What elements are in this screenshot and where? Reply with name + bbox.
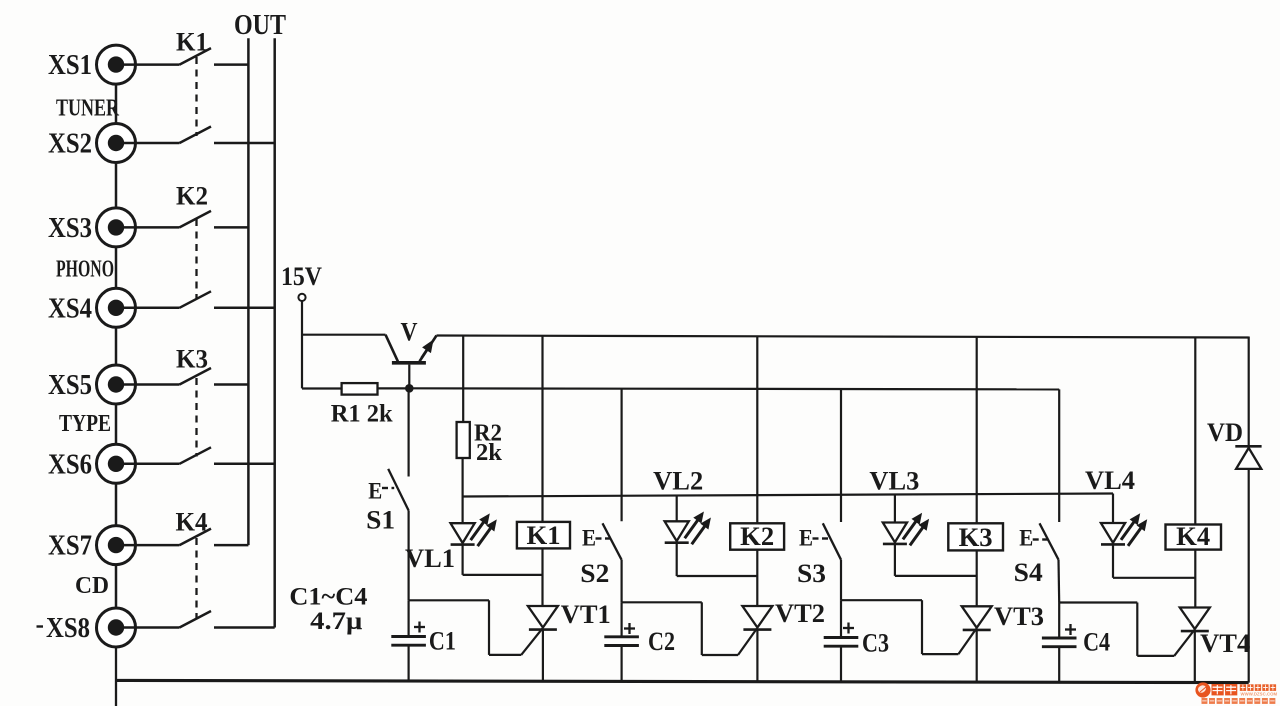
wire VL1 to relay column [463,574,543,576]
wire base line to S3 [840,389,842,522]
wire LED supply rail [463,494,1113,497]
thyristor VT1 [521,606,558,681]
label TUNER [56,96,119,122]
plus sign C3 [843,623,854,634]
svg-text:E: E [1019,526,1033,551]
wire VL2 to relay column [677,575,758,577]
svg-text:K2: K2 [740,522,774,551]
svg-text:K4: K4 [176,508,208,537]
wire XS5 switch contact to OUT bus [214,383,248,386]
svg-text:XS7: XS7 [48,531,92,562]
wire XS2 to switch [119,142,180,145]
OUT bus left wire [247,38,250,545]
svg-text:15V: 15V [281,262,322,291]
dashed gang link K2 [195,219,197,300]
svg-text:OUT: OUT [234,9,286,41]
wire S1 column to C1 [408,600,410,636]
label XS4 [48,293,92,324]
switch lever row XS1 [180,48,212,65]
svg-text:CD: CD [75,573,109,599]
wire gate jog to VT1 [489,654,521,656]
wire R2 to LED rail [462,458,464,497]
wire gate jog horizontal ch3 [841,599,922,601]
label TYPE [59,411,111,437]
label XS8 [46,613,90,644]
svg-text:XS5: XS5 [48,370,92,401]
wire XS1 switch contact to OUT bus [214,63,248,66]
svg-text:C1~C4: C1~C4 [289,584,368,611]
wire gate jog vertical ch4 [1136,603,1138,656]
svg-text:XS2: XS2 [48,129,92,160]
label E actuator S1 [368,479,394,504]
wire jack link [115,247,118,288]
switch lever row XS7 [180,529,212,546]
label VT3 [994,602,1044,631]
wire VD to ground rail [1248,469,1250,683]
label VL3 [869,467,919,496]
svg-text:VD: VD [1207,418,1243,447]
wire XS6 switch contact to OUT bus [214,463,275,466]
svg-text:C4: C4 [1083,628,1110,657]
wire XS8 to switch [119,626,180,629]
svg-text:R1 2k: R1 2k [331,401,393,428]
svg-text:K3: K3 [959,523,993,552]
svg-text:XS4: XS4 [48,293,92,324]
svg-text:K1: K1 [176,28,208,57]
connector XS8 (RCA jack) [97,608,136,647]
svg-text:S1: S1 [366,505,395,534]
wire gate jog vertical ch2 [701,602,703,655]
wire jack link [115,404,118,444]
wire XS4 to switch [119,307,180,310]
wire gate jog horizontal ch1 [409,599,489,601]
label S1 [366,505,395,534]
wire ground stub below XS8 [115,647,117,706]
label XS3 [48,213,92,244]
wire XS2 switch contact to OUT bus [214,142,275,145]
wire S2 to gate jog [620,560,622,603]
label CD [75,573,109,599]
label VL2 [653,467,703,496]
wire S2 column to C2 [620,602,622,637]
wire LED rail to VL4 [1112,494,1114,524]
wire gate jog to VT2 [702,654,738,656]
wire top rail to relay K1 [541,336,543,522]
wire jack link [115,84,118,123]
svg-text:S2: S2 [580,559,609,588]
label V [401,318,418,347]
wire S3 column to C3 [840,600,842,637]
wire XS3 switch contact to OUT bus [214,226,248,229]
svg-text:K4: K4 [1176,522,1210,551]
wire top rail to relay K4 [1194,337,1196,524]
wire gate jog horizontal ch4 [1059,601,1137,603]
wire top supply rail [437,336,1249,338]
label VL1 [405,544,455,573]
label VT1 [561,600,611,629]
svg-text:XS1: XS1 [48,50,92,81]
label E actuator S3 [799,526,828,551]
label VD [1207,418,1243,447]
switch S3 lever [823,523,841,559]
wire top rail corner to VD [1248,337,1250,447]
connector XS5 (RCA jack) [97,365,136,404]
svg-text:E: E [368,479,382,504]
LED VL4 [1101,523,1125,578]
wire C3 to ground rail [840,646,842,682]
svg-text:E: E [799,526,813,551]
LED VL1 [451,523,475,575]
connector XS7 (RCA jack) [97,526,136,565]
switch S2 lever [603,523,622,560]
wire XS7 switch contact to OUT bus [214,544,248,547]
wire top rail to R2 [462,336,464,422]
LED VL2 [665,521,689,576]
LED VL3 light arrows [903,514,929,546]
label XS6 [48,449,92,480]
svg-text:VL4: VL4 [1085,466,1135,495]
svg-text:C1: C1 [429,627,456,656]
wire jack link [115,565,118,608]
capacitor C4 [1042,638,1077,647]
wire top rail to relay K3 [976,337,978,524]
svg-text:VL1: VL1 [405,544,455,573]
relay coil K1 [517,522,570,549]
terminal 15V [298,294,305,301]
switch lever row XS6 [180,447,212,464]
wire VL3 to relay column [895,575,977,577]
svg-text:K2: K2 [176,182,208,211]
connector XS6 (RCA jack) [97,444,136,483]
wire jack link [115,483,118,525]
wire ground rail [116,680,1249,682]
svg-text:C3: C3 [862,629,889,658]
label VL4 [1085,466,1135,495]
OUT bus right wire [273,38,276,627]
svg-text:XS8: XS8 [46,613,90,644]
label 4.7u [310,608,362,635]
LED VL3 [883,523,907,576]
plus sign C1 [414,622,425,633]
svg-text:4.7μ: 4.7μ [310,608,362,635]
dash before XS8 [37,625,44,627]
capacitor C2 [604,637,639,646]
label S2 [580,559,609,588]
label VT4 [1200,629,1250,658]
label PHONO [56,257,114,283]
svg-text:VL2: VL2 [653,467,703,496]
svg-text:VT3: VT3 [994,602,1044,631]
label K3 (contact group) [176,345,208,374]
label K4 (coil) [1176,522,1210,551]
wire S4 column to C4 [1058,603,1060,639]
thyristor VT3 [958,606,991,682]
wire base line to S2 [620,389,622,522]
wire LED rail to VL2 [676,496,678,522]
label R2 [474,421,502,447]
label R2 value 2k [476,440,503,466]
label C4 [1083,628,1110,657]
wire LED rail to VL1 [462,497,464,524]
label K2 (coil) [740,522,774,551]
switch S4 lever [1040,523,1059,559]
svg-text:VL3: VL3 [869,467,919,496]
wire XS5 to switch [119,383,180,386]
wire gate jog vertical ch1 [488,600,490,655]
wire C2 to ground rail [620,646,622,682]
watermark dzsc logo [1195,682,1277,704]
label 15V [281,262,322,291]
svg-text:TYPE: TYPE [59,411,111,437]
plus sign C2 [624,623,635,634]
switch lever row XS2 [180,127,212,144]
svg-text:XS3: XS3 [48,213,92,244]
wire gate jog to VT4 [1137,655,1174,657]
wire relay K3 to VT3 [976,550,978,606]
label XS7 [48,531,92,562]
transistor V [386,335,437,389]
capacitor C3 [824,638,859,647]
label S4 [1014,558,1043,587]
wire XS7 to switch [119,544,180,547]
wire VL4 to relay column [1113,577,1195,579]
thyristor VT4 [1174,608,1210,683]
svg-text:TUNER: TUNER [56,96,119,122]
wire C1 to ground rail [408,645,410,681]
wire C4 to ground rail [1058,647,1060,683]
switch lever row XS5 [180,368,212,385]
svg-text:K1: K1 [527,521,561,550]
label R1 2k [331,401,393,428]
svg-text:K3: K3 [176,345,208,374]
label E actuator S4 [1019,526,1048,551]
svg-text:S3: S3 [797,559,826,588]
wire 15V to R1 [302,387,342,389]
dashed gang link K3 [195,378,197,457]
svg-text:VT2: VT2 [775,599,825,628]
wire relay K4 to VT4 [1194,550,1196,608]
wire base line to S4 [1058,389,1060,522]
wire relay K2 to VT2 [756,550,758,606]
wire gate jog horizontal ch2 [622,601,702,603]
label C1~C4 [289,584,368,611]
label XS5 [48,370,92,401]
dashed gang link K1 [195,57,197,136]
label C1 [429,627,456,656]
switch lever row XS8 [180,611,212,628]
switch lever row XS3 [180,211,212,228]
label XS1 [48,50,92,81]
connector XS1 (RCA jack) [97,45,136,84]
resistor R2 [457,422,470,458]
wire jack link [115,163,118,208]
label OUT [234,9,286,41]
wire gate jog to VT3 [922,653,958,655]
wire 15V down [301,301,303,388]
label S3 [797,559,826,588]
label C2 [648,627,675,656]
capacitor C1 [391,637,426,646]
label K1 (contact group) [176,28,208,57]
connector XS4 (RCA jack) [97,288,136,327]
diode VD [1235,446,1261,469]
svg-text:2k: 2k [476,440,503,466]
svg-text:V: V [401,318,418,347]
label K3 (coil) [959,523,993,552]
svg-text:PHONO: PHONO [56,257,114,283]
switch lever row XS4 [180,291,212,308]
wire top rail to relay K2 [756,336,758,523]
switch S1 lever [388,469,408,511]
wire S1 to gate jog [408,511,410,601]
plus sign C4 [1065,624,1076,635]
wire S4 to gate jog [1057,560,1060,603]
wire jack link [115,327,118,365]
wire base node to S1 [408,388,410,476]
connector XS2 (RCA jack) [97,124,136,163]
wire LED rail to VL3 [894,495,896,523]
relay coil K3 [948,523,1003,550]
wire S3 to gate jog [840,560,842,601]
junction dot base node [405,384,414,393]
relay coil K2 [730,523,784,549]
thyristor VT2 [738,606,772,682]
svg-text:E: E [582,526,596,551]
LED VL2 light arrows [685,513,711,545]
wire 15V to transistor emitter [302,334,386,336]
wire XS6 to switch [119,463,180,466]
resistor R1 [342,383,378,395]
label K4 (contact group) [176,508,208,537]
wire gate jog vertical ch3 [921,600,923,654]
wire XS1 to switch [119,63,180,66]
wire XS4 switch contact to OUT bus [214,307,275,310]
connector XS3 (RCA jack) [97,208,136,247]
wire XS3 to switch [119,226,180,229]
wire R1 to base node [378,387,410,389]
label E actuator S2 [582,526,611,551]
label K1 (coil) [527,521,561,550]
svg-text:XS6: XS6 [48,449,92,480]
svg-text:VT4: VT4 [1200,629,1250,658]
label VT2 [775,599,825,628]
svg-text:WWW.DZSC.COM: WWW.DZSC.COM [1241,692,1278,697]
label C3 [862,629,889,658]
LED VL1 light arrows [471,514,497,546]
svg-text:S4: S4 [1014,558,1043,587]
wire relay K1 to VT1 [541,548,543,606]
svg-text:C2: C2 [648,627,675,656]
relay coil K4 [1166,525,1222,550]
LED VL4 light arrows [1121,514,1147,546]
label K2 (contact group) [176,182,208,211]
dashed gang link K4 [195,538,197,620]
wire XS8 switch contact to OUT bus [214,626,275,629]
wire base bias line [409,388,1059,389]
label XS2 [48,129,92,160]
svg-text:VT1: VT1 [561,600,611,629]
